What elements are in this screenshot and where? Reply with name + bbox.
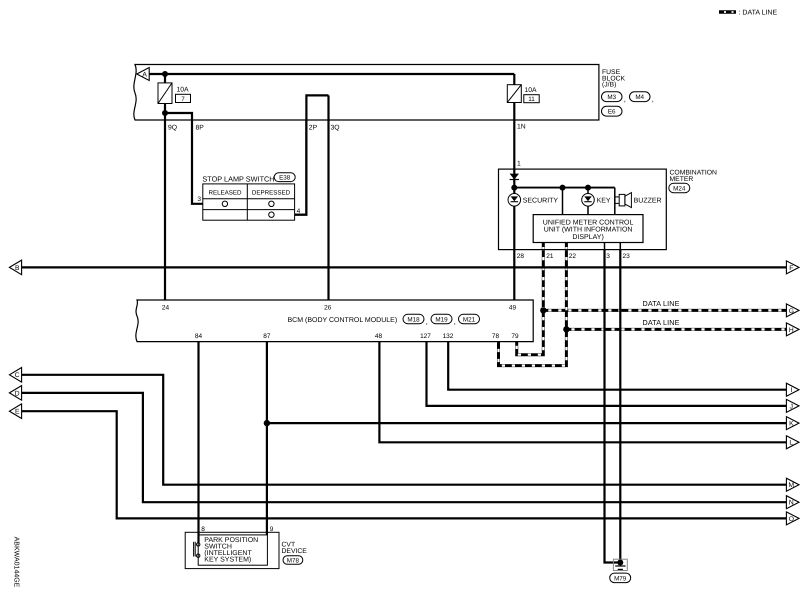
svg-text:F: F — [789, 265, 793, 272]
svg-text:24: 24 — [162, 304, 170, 311]
svg-text:E: E — [15, 409, 20, 416]
connector M21 — [459, 314, 480, 323]
svg-text:2P: 2P — [309, 124, 318, 131]
connector M18 — [403, 314, 428, 326]
wire E to O — [22, 411, 787, 518]
svg-text:10A: 10A — [525, 87, 538, 94]
wire A feed — [149, 73, 514, 75]
wire meter bus horizontal — [514, 187, 615, 189]
combination meter box — [499, 169, 667, 250]
wire umcu pin 23 stub — [619, 243, 621, 250]
svg-text:,: , — [454, 317, 456, 326]
svg-text:STOP LAMP SWITCH: STOP LAMP SWITCH — [202, 174, 274, 183]
wire umcu pin 3 stub — [604, 243, 606, 250]
svg-text:O: O — [789, 516, 794, 523]
svg-text:DATA LINE: DATA LINE — [643, 299, 680, 308]
svg-text:KEY: KEY — [597, 197, 611, 204]
wire 3Q down to BCM pin 26 — [327, 95, 329, 300]
ground box — [613, 559, 627, 570]
arrow N — [786, 496, 799, 509]
wire buzzer branch — [614, 188, 616, 215]
svg-text:C: C — [15, 372, 20, 379]
svg-text:DEPRESSED: DEPRESSED — [252, 190, 291, 197]
node fuse7 tap — [162, 71, 168, 77]
svg-text:8P: 8P — [196, 124, 205, 131]
svg-text:N: N — [789, 500, 794, 507]
arrow C — [9, 368, 21, 383]
wire jumper 2P-3Q inside fuse block — [295, 95, 329, 214]
svg-text:DATA LINE: DATA LINE — [643, 318, 680, 327]
svg-text:48: 48 — [375, 333, 383, 340]
wire BCM 48 to L — [379, 342, 786, 443]
node data H — [563, 326, 569, 332]
fuse 7 — [158, 83, 172, 104]
connector E6 — [602, 106, 623, 116]
svg-text:D: D — [15, 390, 20, 397]
svg-text:I: I — [790, 387, 792, 394]
arrow M — [786, 478, 799, 491]
svg-text:UNIT (WITH INFORMATION: UNIT (WITH INFORMATION — [544, 226, 633, 234]
wire meter 23 to ground — [619, 250, 621, 563]
connector M78 — [283, 556, 303, 565]
contact depressed row2 — [269, 201, 274, 206]
stop lamp switch box — [203, 184, 295, 220]
svg-text:49: 49 — [509, 304, 517, 311]
svg-text:26: 26 — [324, 304, 332, 311]
umcu text — [543, 219, 634, 241]
combination meter label — [670, 169, 718, 183]
svg-text:SECURITY: SECURITY — [523, 197, 559, 204]
wire 1N down to combination meter — [513, 103, 515, 170]
arrow K — [786, 417, 799, 430]
svg-text:21: 21 — [546, 253, 554, 260]
arrow A — [137, 68, 149, 81]
wire data line H — [566, 328, 786, 331]
svg-text:G: G — [789, 308, 794, 315]
svg-text:22: 22 — [569, 253, 577, 260]
svg-text:ABKWA0144GE: ABKWA0144GE — [13, 537, 20, 588]
arrow G — [786, 304, 799, 317]
svg-text:M19: M19 — [435, 317, 448, 324]
connector M3 — [602, 92, 626, 104]
svg-text:UNIFIED METER CONTROL: UNIFIED METER CONTROL — [543, 219, 634, 226]
label 11 boxed — [524, 95, 539, 104]
wire fuse 11 feed from A line — [513, 74, 515, 85]
node data G — [540, 307, 546, 313]
svg-text:BUZZER: BUZZER — [634, 197, 662, 204]
svg-text:(J/B): (J/B) — [602, 82, 616, 89]
diode D1 — [510, 174, 519, 180]
arrow D — [9, 386, 21, 401]
svg-text:H: H — [789, 327, 794, 334]
wire 2P elbow into switch — [295, 120, 307, 215]
svg-text:1: 1 — [517, 161, 521, 168]
svg-text:L: L — [789, 440, 793, 447]
arrow J — [786, 399, 799, 412]
svg-text:84: 84 — [195, 333, 203, 340]
contact released row2 — [222, 201, 227, 206]
svg-text:127: 127 — [420, 333, 431, 340]
node umcu branch — [560, 185, 566, 191]
wire 8P — [165, 113, 203, 204]
wire to fuse 7 — [164, 74, 166, 83]
connector E38 — [274, 173, 295, 182]
svg-text:M24: M24 — [673, 186, 686, 193]
node K tap — [264, 420, 270, 426]
svg-text:10A: 10A — [177, 87, 190, 94]
label 7 boxed — [176, 94, 191, 103]
fuse block box — [134, 65, 599, 121]
wire C to M — [22, 375, 787, 485]
svg-text:M: M — [789, 482, 795, 489]
svg-text:M18: M18 — [407, 317, 420, 324]
svg-text:132: 132 — [443, 333, 454, 340]
arrow H — [786, 323, 799, 336]
arrow L — [786, 436, 799, 449]
wire D to N — [22, 393, 787, 502]
park position switch box — [198, 535, 267, 565]
wire key to umcu — [587, 206, 589, 215]
svg-text:,: , — [624, 95, 626, 104]
legend data line sample — [719, 10, 736, 13]
svg-text:,: , — [426, 317, 428, 326]
svg-text:3: 3 — [197, 196, 201, 203]
svg-text:E38: E38 — [279, 175, 291, 182]
connector M79 — [610, 573, 631, 583]
svg-text:9Q: 9Q — [168, 124, 177, 131]
wire data line G — [543, 309, 786, 312]
BCM top pin labels — [162, 304, 517, 311]
fuse block label — [602, 69, 626, 89]
node meter bus — [511, 185, 517, 191]
contact depressed row3 — [269, 212, 274, 217]
wire 9Q down from fuse 7 to BCM pin 24 — [164, 104, 166, 301]
svg-text:28: 28 — [517, 253, 525, 260]
svg-text:RELEASED: RELEASED — [208, 190, 242, 197]
wire umcu branch — [562, 188, 564, 215]
svg-text:E6: E6 — [608, 109, 616, 116]
svg-text:M78: M78 — [287, 557, 300, 564]
BCM box — [136, 300, 533, 342]
buzzer — [615, 193, 632, 208]
svg-text:M79: M79 — [614, 575, 627, 582]
svg-text:87: 87 — [263, 333, 271, 340]
park switch symbol — [194, 542, 200, 558]
wire security to pin 28 — [513, 206, 515, 250]
lamp KEY — [582, 194, 595, 207]
connector M4 — [630, 92, 654, 104]
wire key branch — [587, 188, 589, 194]
svg-text:3: 3 — [606, 253, 610, 260]
park switch pin labels — [201, 526, 273, 533]
svg-text:M3: M3 — [607, 94, 616, 101]
svg-text:: DATA LINE: : DATA LINE — [739, 10, 778, 17]
svg-text:K: K — [789, 421, 794, 428]
svg-text:METER: METER — [670, 176, 694, 183]
wire BCM 132 to I — [448, 342, 786, 390]
svg-text:78: 78 — [492, 333, 500, 340]
svg-text:M21: M21 — [463, 317, 476, 324]
wire BCM 84 to park switch pin 8 — [197, 342, 199, 543]
wire BCM 87 to park switch pin 9 — [266, 342, 268, 535]
wire meter 3 to ground — [605, 250, 621, 563]
node 8P tap — [162, 110, 168, 116]
arrow B — [9, 260, 21, 275]
arrow E — [9, 404, 21, 419]
wire meter main column — [513, 169, 515, 194]
svg-text:DEVICE: DEVICE — [282, 548, 308, 555]
svg-text:79: 79 — [511, 333, 519, 340]
svg-text:A: A — [142, 71, 147, 78]
node key branch — [585, 185, 591, 191]
svg-text:1N: 1N — [517, 124, 526, 131]
arrow I — [786, 383, 799, 396]
svg-text:B: B — [15, 265, 20, 272]
connector M19 — [431, 314, 456, 326]
svg-text:DISPLAY): DISPLAY) — [572, 233, 603, 241]
wire meter 28 to BCM 49 — [513, 250, 515, 300]
connector M24 — [669, 183, 690, 192]
arrow O — [786, 512, 799, 525]
lamp SECURITY — [508, 194, 521, 207]
wire line K — [267, 422, 787, 424]
ground symbol — [615, 566, 625, 569]
CVT device outer box — [185, 532, 279, 568]
svg-text:,: , — [652, 95, 654, 104]
svg-text:11: 11 — [528, 96, 535, 103]
park switch text — [204, 537, 258, 564]
wire BCM 127 to J — [427, 342, 787, 406]
unified meter control unit box U1 — [533, 215, 643, 243]
svg-text:KEY SYSTEM): KEY SYSTEM) — [204, 555, 251, 563]
svg-text:M4: M4 — [635, 94, 644, 101]
ground node — [617, 560, 623, 566]
svg-text:3Q: 3Q — [331, 124, 340, 131]
arrow F — [786, 261, 799, 274]
svg-text:J: J — [790, 403, 793, 410]
svg-text:23: 23 — [623, 253, 631, 260]
CVT device label — [282, 542, 308, 555]
wire B to F horizontal — [22, 266, 787, 268]
wire data 22 to BCM 78 — [499, 243, 567, 366]
meter pin labels — [517, 253, 630, 260]
svg-text:BCM (BODY CONTROL MODULE): BCM (BODY CONTROL MODULE) — [288, 316, 398, 324]
fuse 11 — [507, 85, 521, 103]
wire data 21 to BCM 79 — [517, 243, 544, 355]
svg-text:7: 7 — [181, 96, 185, 103]
BCM bottom pin labels — [195, 333, 519, 340]
